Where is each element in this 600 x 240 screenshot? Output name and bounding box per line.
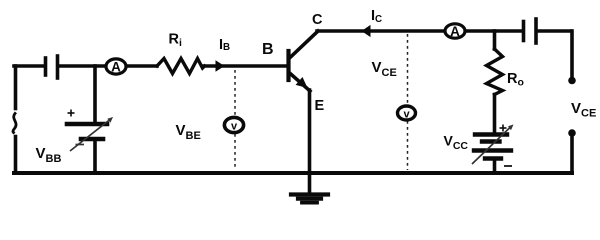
- wire emitter down through rail to ground: [308, 90, 312, 193]
- capacitor (blocking) left: plate 2: [56, 56, 60, 78]
- wire top-left horizontal to capacitor: [14, 64, 44, 68]
- battery VCC plus sign: [500, 125, 507, 132]
- battery VBB minus sign: [76, 144, 85, 146]
- wire top rail collector to right: [317, 29, 522, 33]
- battery VBB plate long: [67, 122, 107, 127]
- battery VBB plate short: [81, 137, 103, 142]
- wire resistor to transistor base: [203, 64, 287, 68]
- battery VCC plate 4 short: [485, 156, 501, 160]
- transistor Q1 emitter diagonal: [289, 73, 310, 92]
- battery VCC plate 1 long: [475, 132, 507, 136]
- arrow IB on base wire: [216, 60, 225, 71]
- ground bar 3: [302, 201, 317, 205]
- wire right rail upper (to VCE terminal): [570, 31, 574, 79]
- transistor Q1 collector diagonal: [289, 31, 318, 59]
- node VCE terminal upper dot: [568, 77, 576, 85]
- battery VCC minus sign: [504, 165, 512, 167]
- capacitor (blocking) left: plate 1: [44, 58, 48, 75]
- battery VBB variable arrow: [70, 117, 113, 151]
- wire Ro to VCC battery: [493, 95, 497, 134]
- wire left rail bottom segment: [14, 137, 18, 174]
- ground bar 1: [291, 192, 328, 196]
- capacitor (blocking) right: plate 2: [534, 19, 538, 43]
- svg-text:E: E: [315, 98, 325, 114]
- voltmeter V1 (VBE): [224, 117, 243, 132]
- wire capacitor to right corner: [538, 29, 571, 33]
- svg-text:A: A: [450, 24, 460, 39]
- wire right rail lower (from VCE terminal): [570, 134, 574, 172]
- ammeter A1: [106, 59, 126, 75]
- wire capacitor to ammeter A1: [60, 64, 107, 68]
- svg-text:v: v: [403, 109, 410, 121]
- ground bar 2: [298, 197, 321, 201]
- svg-text:A: A: [111, 60, 121, 75]
- voltmeter V2 (VCE): [398, 106, 416, 121]
- battery VCC variable arrow: [472, 125, 514, 165]
- svg-text:v: v: [231, 121, 238, 133]
- dashed measurement line VBE: [234, 70, 236, 170]
- wire left rail top segment: [14, 66, 18, 109]
- wire break squiggle on left rail: [13, 114, 16, 133]
- battery VBB plus sign: [68, 110, 75, 117]
- wire junction down to VBB battery: [93, 66, 97, 121]
- wire junction down to resistor Ro: [493, 31, 497, 49]
- battery VCC plate 2 short: [482, 139, 500, 143]
- wire VBB battery to bottom rail: [93, 141, 97, 172]
- wire ammeter A1 to resistor Ri: [127, 64, 158, 68]
- battery VCC plate 3 long: [474, 148, 511, 152]
- capacitor (blocking) right: plate 1: [522, 22, 526, 41]
- transistor Q1 emitter arrow: [296, 77, 308, 88]
- svg-text:B: B: [262, 41, 274, 58]
- transistor Q1 base bar: [286, 51, 290, 80]
- resistor Ro zigzag: [487, 49, 503, 95]
- node VCE terminal lower dot: [568, 129, 576, 137]
- dashed measurement line VCE: [407, 34, 409, 170]
- ammeter A2: [445, 24, 465, 39]
- wire bottom rail: [14, 171, 572, 175]
- resistor Ri zigzag: [157, 59, 205, 74]
- wire VCC battery to bottom rail: [493, 159, 497, 173]
- svg-text:C: C: [312, 12, 323, 28]
- arrow IC on collector wire (pointing left): [362, 25, 371, 37]
